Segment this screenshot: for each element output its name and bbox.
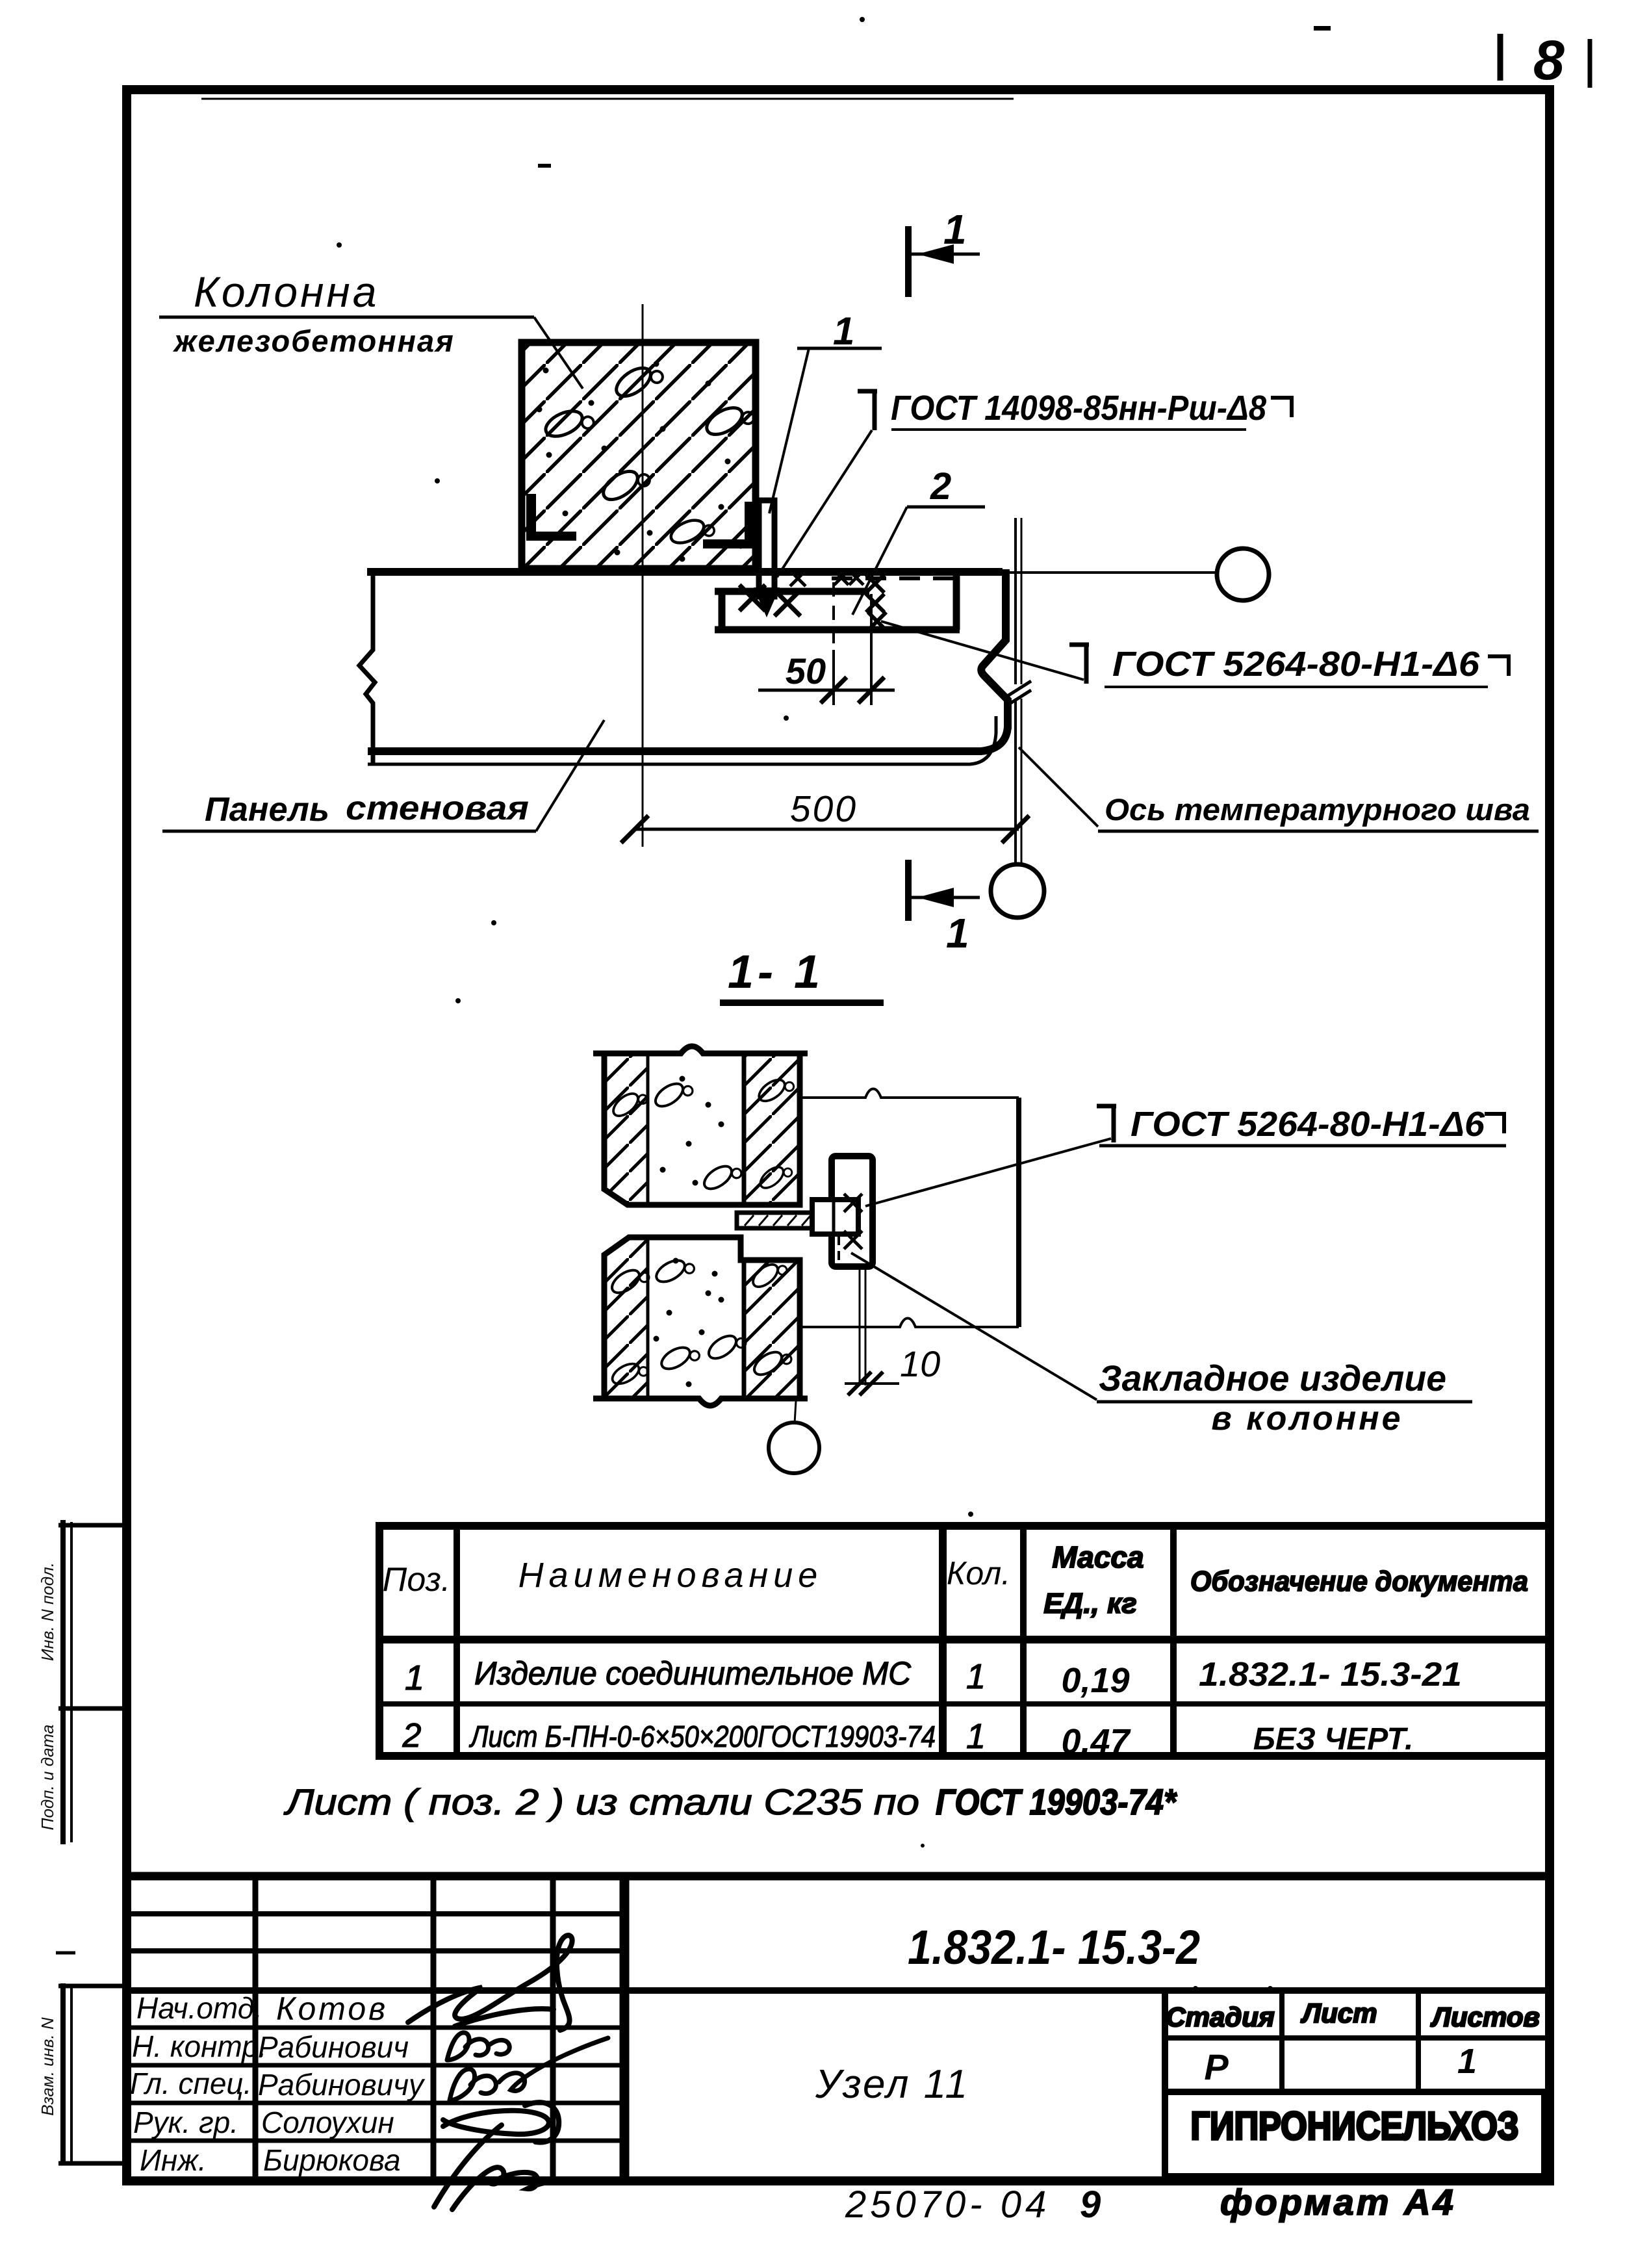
svg-text:1: 1 [946,910,969,957]
svg-text:Подп. и дата: Подп. и дата [38,1725,57,1831]
svg-text:8: 8 [1533,29,1565,92]
svg-text:формат А4: формат А4 [1220,2182,1456,2223]
svg-text:Кол.: Кол. [947,1555,1010,1591]
svg-text:ГОСТ 19903-74*: ГОСТ 19903-74* [936,1781,1177,1822]
svg-text:Бирюкова: Бирюкова [263,2143,401,2177]
svg-text:Инж.: Инж. [140,2143,207,2177]
svg-text:Лист: Лист [1300,1998,1377,2028]
svg-text:Р: Р [1204,2046,1229,2087]
svg-text:1: 1 [966,1657,986,1696]
svg-text:Взам. инв. N: Взам. инв. N [38,2017,57,2116]
svg-text:Панель: Панель [205,791,329,829]
svg-text:ГОСТ 5264-80-Н1-Δ6: ГОСТ 5264-80-Н1-Δ6 [1112,645,1480,684]
svg-text:0,19: 0,19 [1061,1661,1129,1700]
svg-text:Закладное изделие: Закладное изделие [1099,1358,1446,1398]
svg-text:Узел 11: Узел 11 [815,2062,969,2107]
svg-text:Обозначение документа: Обозначение документа [1190,1566,1528,1597]
svg-text:Поз.: Поз. [383,1561,451,1599]
svg-text:25070- 04: 25070- 04 [845,2184,1050,2226]
svg-text:ЕД., кг: ЕД., кг [1043,1588,1137,1619]
svg-text:1: 1 [833,309,854,353]
svg-text:1.832.1- 15.3-21: 1.832.1- 15.3-21 [1199,1656,1462,1694]
svg-text:в колонне: в колонне [1211,1400,1403,1437]
svg-text:железобетонная: железобетонная [172,324,455,358]
svg-text:1: 1 [405,1658,424,1697]
svg-text:1- 1: 1- 1 [728,946,824,998]
svg-text:0,47: 0,47 [1061,1722,1131,1761]
svg-text:Наименование: Наименование [518,1556,823,1595]
svg-text:Солоухин: Солоухин [261,2106,394,2139]
svg-text:ГОСТ 14098-85нн-Рш-Δ8: ГОСТ 14098-85нн-Рш-Δ8 [891,389,1266,428]
svg-text:Стадия: Стадия [1166,2002,1274,2032]
svg-text:стеновая: стеновая [346,790,529,827]
svg-text:Лист Б-ПН-0-6×50×200ГОСТ19903-: Лист Б-ПН-0-6×50×200ГОСТ19903-74 [468,1720,936,1753]
svg-text:1.832.1- 15.3-2: 1.832.1- 15.3-2 [908,1920,1200,1974]
svg-text:Гл. спец.: Гл. спец. [130,2067,251,2100]
svg-text:Масса: Масса [1052,1540,1144,1574]
svg-text:ГОСТ 5264-80-Н1-Δ6: ГОСТ 5264-80-Н1-Δ6 [1131,1105,1485,1144]
svg-text:Котов: Котов [276,1991,388,2027]
svg-text:Рабиновичу: Рабиновичу [258,2068,426,2102]
svg-text:50: 50 [786,651,826,691]
svg-text:Инв. N подл.: Инв. N подл. [38,1562,57,1661]
svg-text:10: 10 [900,1343,940,1384]
svg-text:Нач.отд.: Нач.отд. [136,1991,262,2025]
svg-text:Ось температурного шва: Ось температурного шва [1105,792,1530,827]
svg-text:1: 1 [1457,2042,1477,2081]
svg-text:Изделие соединительное МС: Изделие соединительное МС [474,1655,912,1692]
svg-text:Листов: Листов [1430,2002,1540,2032]
svg-text:Рук. гр.: Рук. гр. [133,2106,238,2139]
svg-text:1: 1 [943,206,967,253]
svg-text:Колонна: Колонна [194,268,379,316]
svg-text:1: 1 [966,1717,986,1756]
svg-text:Н. контр.: Н. контр. [132,2030,267,2063]
svg-text:Лист ( поз. 2 ) из стали: Лист ( поз. 2 ) из стали С235 по [284,1781,919,1822]
svg-text:500: 500 [790,788,858,830]
svg-text:9: 9 [1080,2184,1101,2226]
svg-text:2: 2 [402,1717,422,1755]
svg-text:БЕЗ ЧЕРТ.: БЕЗ ЧЕРТ. [1253,1722,1414,1757]
svg-text:2: 2 [930,465,951,508]
svg-text:ГИПРОНИСЕЛЬХОЗ: ГИПРОНИСЕЛЬХОЗ [1191,2104,1519,2148]
svg-text:Рабинович: Рабинович [258,2030,409,2064]
